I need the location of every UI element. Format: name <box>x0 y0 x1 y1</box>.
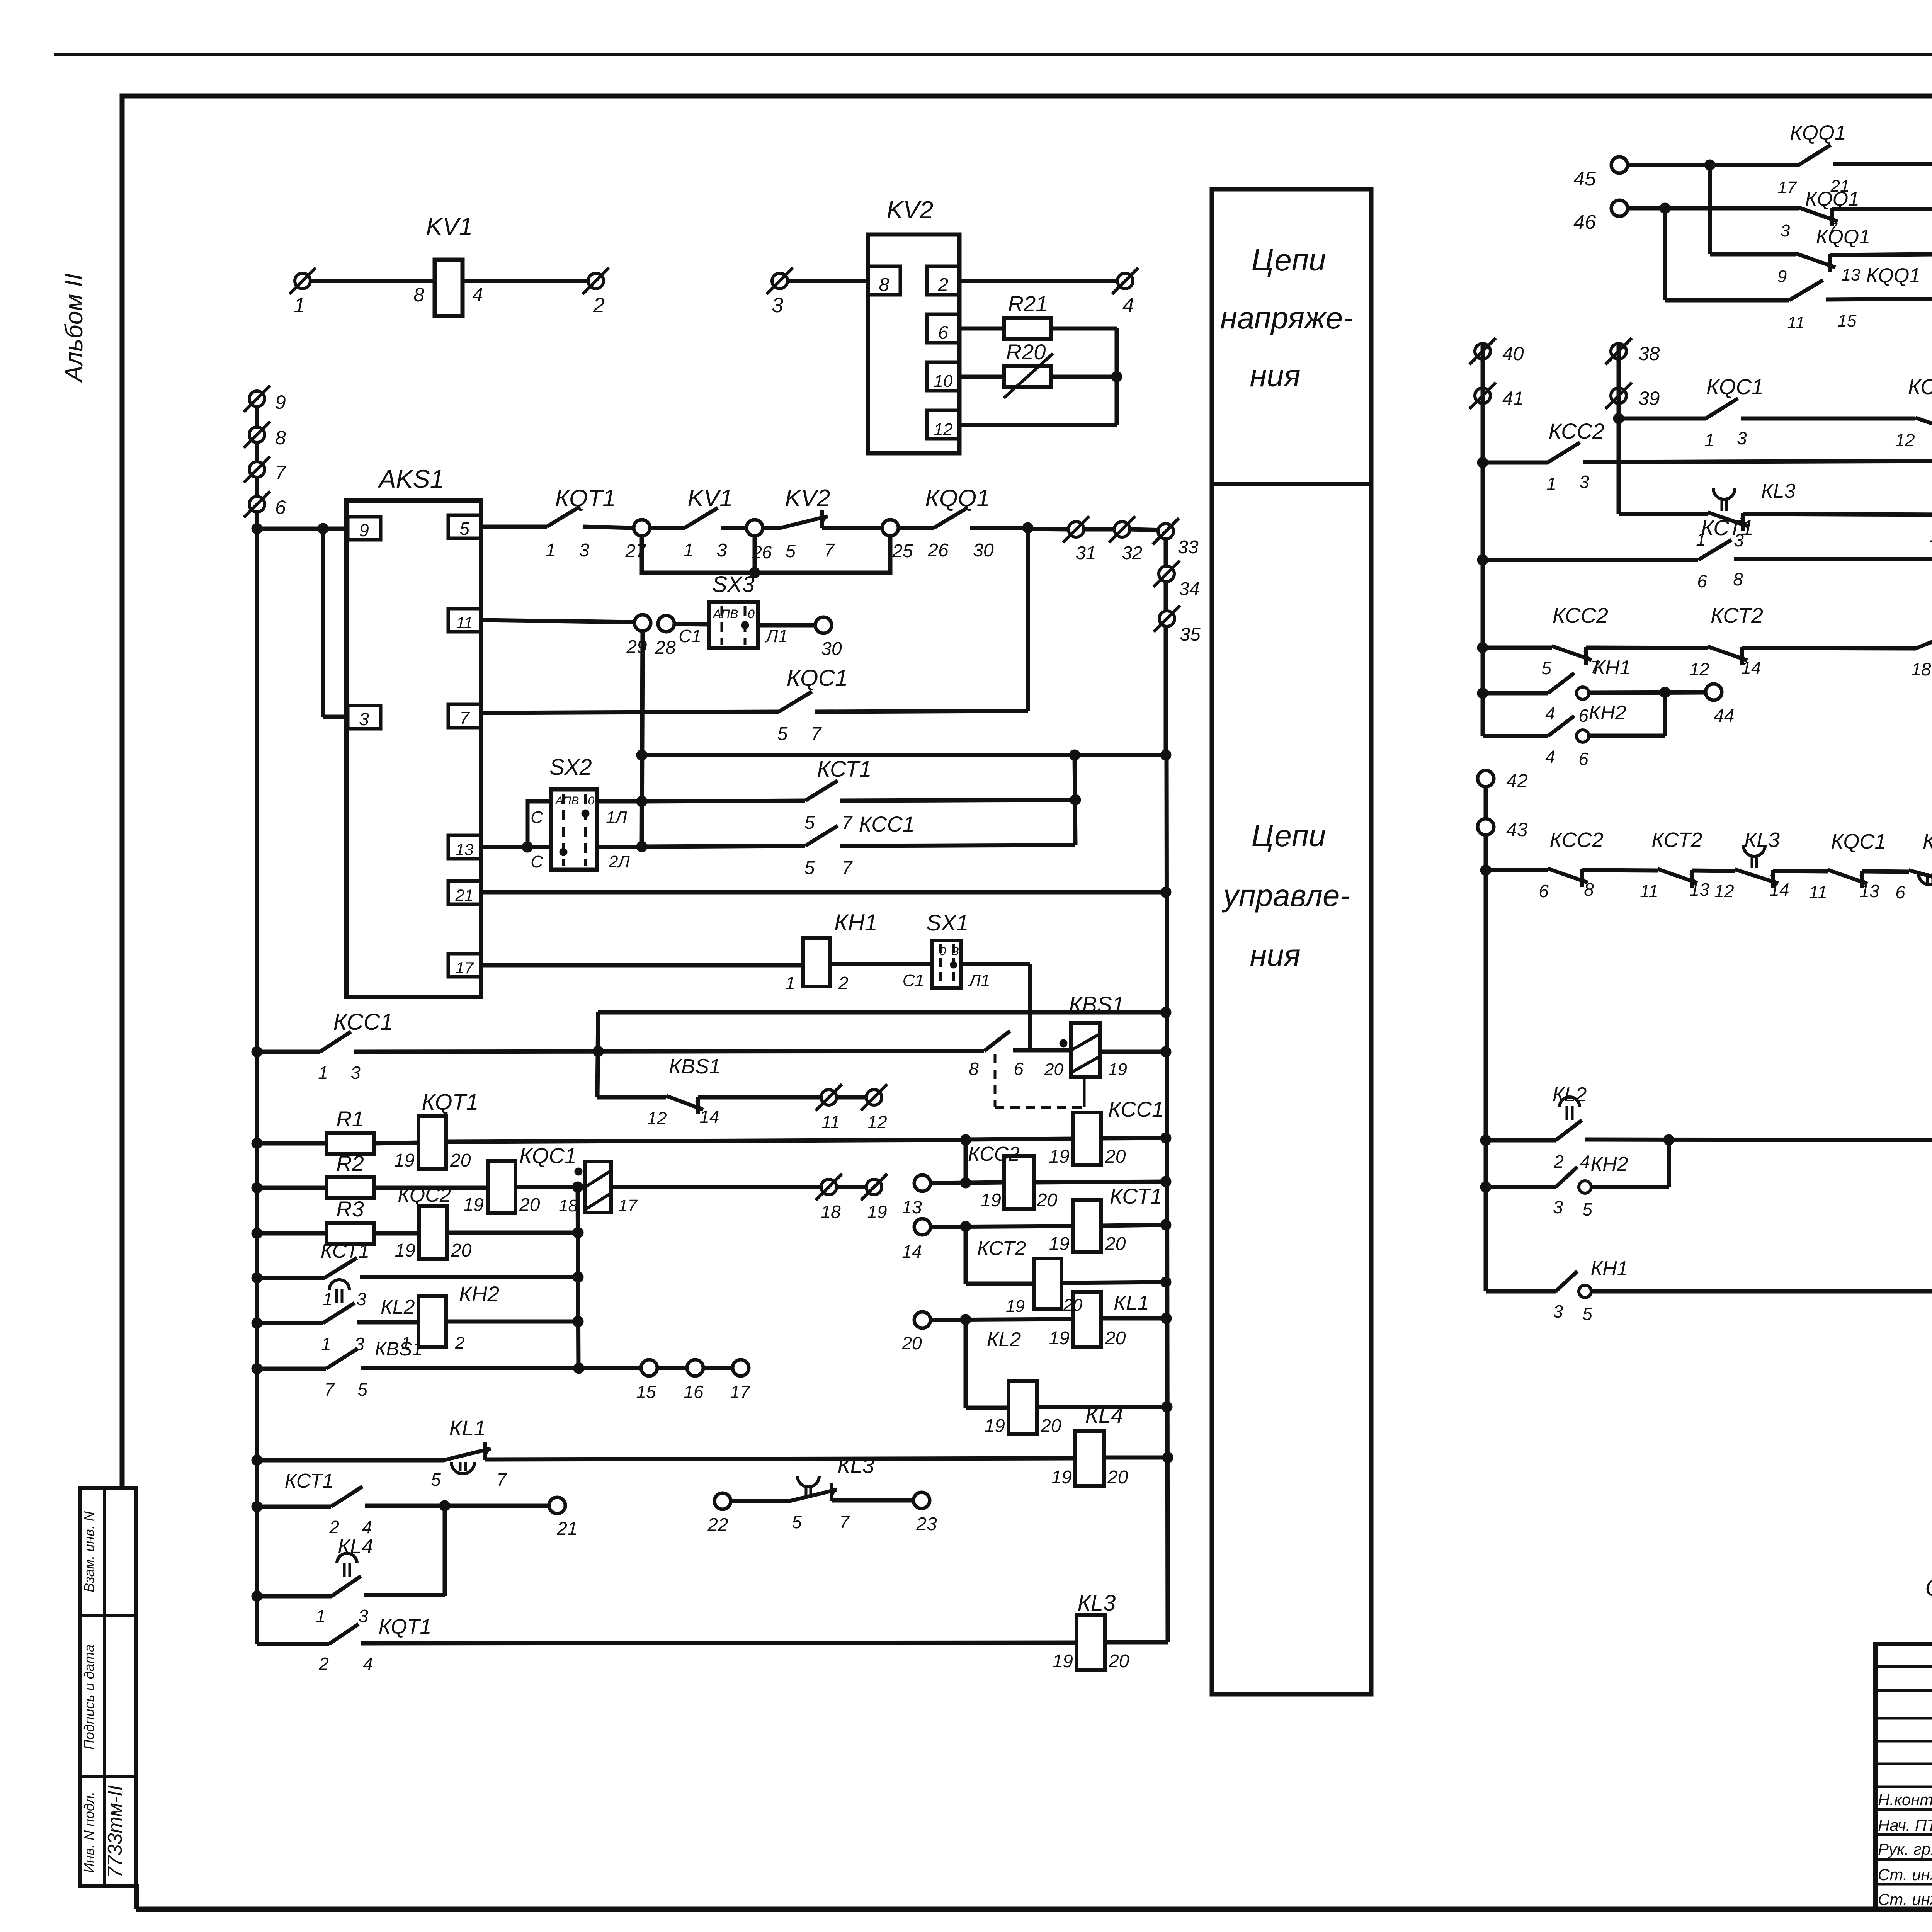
wire <box>1619 417 1706 421</box>
svg-text:9: 9 <box>275 391 286 413</box>
resistor R21 <box>959 327 1005 331</box>
svg-text:6: 6 <box>1895 882 1905 902</box>
svg-text:2: 2 <box>318 1654 329 1674</box>
svg-text:3: 3 <box>358 1606 368 1626</box>
svg-text:18: 18 <box>1911 659 1931 679</box>
svg-text:7: 7 <box>842 813 853 833</box>
contact KQQ1 17-21 <box>1799 145 1831 165</box>
svg-text:19: 19 <box>985 1416 1005 1436</box>
svg-text:3: 3 <box>1553 1197 1563 1217</box>
svg-text:15: 15 <box>636 1382 656 1402</box>
contact KQC1 5-7 <box>779 692 812 712</box>
contact KCT1 1-3 <box>325 1258 357 1278</box>
svg-text:4: 4 <box>472 284 483 306</box>
wire <box>257 1321 323 1325</box>
node 30 <box>815 617 832 633</box>
node 20 <box>914 1312 930 1328</box>
svg-text:20: 20 <box>450 1150 471 1171</box>
svg-text:17: 17 <box>730 1382 750 1402</box>
svg-text:R20: R20 <box>1006 340 1046 364</box>
svg-text:КQQ1: КQQ1 <box>1790 121 1846 145</box>
svg-text:SX3: SX3 <box>712 572 755 597</box>
svg-text:С: С <box>531 852 543 871</box>
wire <box>365 1504 549 1508</box>
svg-text:8: 8 <box>275 427 286 449</box>
wire row to node <box>642 753 1166 757</box>
svg-text:R21: R21 <box>1008 291 1048 316</box>
svg-text:КL2: КL2 <box>1553 1083 1587 1106</box>
svg-text:Цепи: Цепи <box>1252 818 1326 853</box>
svg-text:20: 20 <box>519 1195 540 1215</box>
wire <box>840 800 1075 801</box>
svg-text:6: 6 <box>1014 1059 1024 1079</box>
wire <box>447 1231 578 1235</box>
wire <box>822 526 883 530</box>
wire <box>257 1458 444 1463</box>
pin 10 <box>927 362 959 391</box>
svg-text:3: 3 <box>356 1289 366 1309</box>
wire <box>959 279 1117 283</box>
wire <box>966 1282 1036 1286</box>
relay coil KH2 <box>357 1320 419 1325</box>
svg-text:20: 20 <box>1105 1328 1126 1349</box>
wire <box>1104 1456 1168 1460</box>
svg-text:7: 7 <box>497 1469 507 1490</box>
sheet edge top <box>54 53 1932 56</box>
wire <box>1589 692 1706 693</box>
svg-text:20: 20 <box>1044 1060 1063 1079</box>
svg-text:6: 6 <box>275 497 286 518</box>
wire <box>970 526 1028 530</box>
svg-text:6: 6 <box>1578 749 1588 769</box>
wire <box>257 1594 332 1599</box>
svg-text:12: 12 <box>1714 881 1734 901</box>
wire <box>1773 871 1828 871</box>
relay coil KQC1 <box>488 1161 515 1213</box>
contact KH2 3-5 button <box>1556 1167 1577 1187</box>
svg-text:3: 3 <box>350 1063 361 1083</box>
wire <box>1101 1225 1166 1226</box>
svg-text:21: 21 <box>455 886 474 904</box>
svg-text:3: 3 <box>1737 428 1747 448</box>
svg-text:25: 25 <box>892 541 913 561</box>
wire <box>961 962 1030 966</box>
svg-text:КQQ1: КQQ1 <box>1805 188 1859 210</box>
wire <box>485 1458 1075 1459</box>
svg-text:3: 3 <box>1579 472 1589 492</box>
svg-text:23: 23 <box>916 1514 937 1534</box>
wire <box>1589 734 1665 738</box>
node 26 <box>747 520 763 536</box>
svg-text:Альбом II: Альбом II <box>60 273 88 383</box>
contact KCC1 1-3 <box>320 1032 351 1052</box>
svg-text:КL1: КL1 <box>1114 1291 1149 1315</box>
svg-text:КСС2: КСС2 <box>1549 419 1604 443</box>
svg-text:КН2: КН2 <box>1588 702 1626 724</box>
contact KQT1 2-4 <box>329 1624 359 1644</box>
node 42 <box>1478 770 1494 787</box>
title block left rows <box>1876 1665 1932 1668</box>
terminal 39 <box>1611 388 1626 403</box>
svg-text:44: 44 <box>1714 706 1734 726</box>
svg-text:1: 1 <box>1704 430 1714 450</box>
svg-text:КQQ1: КQQ1 <box>1816 226 1870 248</box>
svg-text:11: 11 <box>1640 881 1658 901</box>
svg-text:4: 4 <box>1545 703 1555 723</box>
wire <box>1619 512 1708 516</box>
wire <box>1833 163 1932 164</box>
contact KL2 2-4 latched <box>1556 1120 1582 1140</box>
svg-text:2: 2 <box>593 294 605 317</box>
svg-text:6: 6 <box>1539 881 1549 901</box>
relay coil KCC1 <box>966 1139 1074 1139</box>
svg-text:KV1: KV1 <box>687 485 733 512</box>
wire <box>463 279 588 283</box>
vertical bus x1495 <box>578 1187 578 1369</box>
svg-text:19: 19 <box>867 1202 887 1222</box>
terminal 11 <box>821 1090 837 1105</box>
svg-text:КQQ1: КQQ1 <box>925 485 990 512</box>
svg-text:38: 38 <box>1638 343 1660 364</box>
wire <box>1862 871 1909 872</box>
svg-text:КL2: КL2 <box>381 1296 415 1318</box>
svg-text:КL3: КL3 <box>1078 1590 1116 1616</box>
svg-text:КСС2: КСС2 <box>1549 828 1603 852</box>
wire <box>361 1643 1077 1643</box>
svg-text:3: 3 <box>1553 1301 1563 1321</box>
wire <box>1483 734 1548 738</box>
wire <box>930 1182 1004 1183</box>
resistor R2 <box>327 1177 374 1198</box>
svg-text:КСС2: КСС2 <box>1553 603 1608 628</box>
wire <box>815 711 1028 712</box>
wire <box>966 1406 1009 1410</box>
title block outer <box>1876 1644 1932 1909</box>
wire <box>674 624 709 624</box>
wire <box>257 1186 327 1190</box>
wire pin12 loop <box>959 423 1117 427</box>
contact KCT1 6-8 <box>1698 540 1731 560</box>
node 27 <box>634 520 650 536</box>
svg-text:5: 5 <box>777 724 788 744</box>
svg-text:КВS1: КВS1 <box>375 1338 423 1360</box>
relay KH1 <box>803 938 830 986</box>
svg-text:5: 5 <box>792 1512 802 1532</box>
svg-text:34: 34 <box>1179 579 1199 599</box>
wire <box>930 1226 1074 1227</box>
svg-text:11: 11 <box>1930 526 1932 546</box>
svg-text:17: 17 <box>456 959 474 977</box>
svg-text:Взам. инв. N: Взам. инв. N <box>81 1511 97 1592</box>
terminal 33 <box>1158 524 1173 539</box>
svg-text:Нач. ПТП: Нач. ПТП <box>1878 1816 1932 1834</box>
svg-text:20: 20 <box>1040 1416 1061 1436</box>
wire <box>1105 1640 1168 1645</box>
relay coil KCT2 <box>1034 1259 1061 1309</box>
svg-text:КСТ2: КСТ2 <box>977 1237 1026 1260</box>
svg-text:4: 4 <box>362 1517 372 1537</box>
wire <box>762 526 781 530</box>
bus 38-39 <box>1617 343 1621 514</box>
wire <box>257 1141 327 1146</box>
svg-text:7: 7 <box>842 858 853 878</box>
svg-text:Рук. гр.: Рук. гр. <box>1878 1840 1932 1858</box>
svg-text:19: 19 <box>1108 1060 1127 1079</box>
svg-text:Л1: Л1 <box>765 626 788 646</box>
wire <box>758 623 816 628</box>
svg-text:11: 11 <box>821 1112 840 1132</box>
pin 17 <box>448 954 481 977</box>
svg-text:КQТ1: КQТ1 <box>379 1615 432 1638</box>
svg-text:30: 30 <box>821 639 842 659</box>
wire pin21 row <box>481 890 1166 895</box>
wire <box>721 526 747 530</box>
svg-text:3: 3 <box>772 294 783 317</box>
relay KBS1 hatched 2 <box>575 1168 582 1175</box>
svg-text:12: 12 <box>647 1108 667 1128</box>
svg-text:40: 40 <box>1502 343 1524 364</box>
svg-text:7: 7 <box>824 540 835 561</box>
wire down <box>964 1226 968 1284</box>
wire <box>1483 461 1548 465</box>
svg-text:5: 5 <box>804 858 815 878</box>
resistor R3 <box>327 1223 374 1244</box>
bus wire <box>1484 787 1488 1291</box>
svg-text:6: 6 <box>938 323 949 343</box>
svg-text:20: 20 <box>1105 1146 1126 1167</box>
svg-text:Ст. инж.: Ст. инж. <box>1878 1866 1932 1884</box>
wire KH1 row <box>1486 1289 1556 1294</box>
resistor R20 <box>959 375 1005 379</box>
svg-text:15: 15 <box>1838 311 1857 330</box>
svg-text:КСТ2: КСТ2 <box>1711 603 1763 628</box>
contact KBS1 8-6 <box>984 1031 1010 1051</box>
svg-text:35: 35 <box>1180 624 1201 645</box>
svg-text:R2: R2 <box>336 1151 364 1175</box>
wire <box>698 1095 821 1100</box>
margin stamp box <box>80 1488 136 1886</box>
svg-text:КL3: КL3 <box>1744 828 1780 852</box>
svg-text:КСТ1: КСТ1 <box>817 757 871 782</box>
svg-text:19: 19 <box>1049 1234 1070 1254</box>
wire <box>1628 206 1799 211</box>
svg-text:19: 19 <box>1049 1328 1070 1349</box>
svg-text:19: 19 <box>394 1150 415 1171</box>
wire ladder v1 <box>1708 165 1712 254</box>
wire <box>1742 648 1916 648</box>
node 25 <box>882 520 898 536</box>
svg-text:14: 14 <box>1769 879 1789 900</box>
terminal 34 <box>1159 566 1174 582</box>
vertical <box>443 1506 447 1596</box>
svg-text:8: 8 <box>969 1059 979 1079</box>
pin 7 <box>448 704 481 728</box>
svg-text:5: 5 <box>431 1469 441 1490</box>
svg-text:20: 20 <box>1105 1234 1126 1254</box>
svg-text:12: 12 <box>867 1112 887 1132</box>
svg-text:4: 4 <box>1580 1151 1590 1172</box>
svg-text:КСТ1: КСТ1 <box>1110 1184 1162 1208</box>
svg-text:5: 5 <box>804 813 815 833</box>
svg-text:10: 10 <box>934 372 953 391</box>
svg-text:5: 5 <box>459 519 469 539</box>
vertical 2620-2840 <box>597 1012 598 1097</box>
wire to 31 32 33 <box>1028 529 1068 529</box>
contact KCC2 1-3 <box>1548 442 1580 463</box>
svg-text:1: 1 <box>323 1289 333 1309</box>
wire <box>481 525 547 529</box>
terminal 4 <box>1117 273 1133 289</box>
svg-text:АПВ: АПВ <box>554 794 579 807</box>
nodes 15 16 17 <box>641 1360 657 1376</box>
contact KV2 5-7 closed <box>820 510 824 528</box>
wire <box>1591 1185 1669 1189</box>
relay coil KL1 <box>1073 1292 1101 1347</box>
svg-text:3: 3 <box>359 709 369 729</box>
pin 3 <box>348 706 381 729</box>
svg-text:20: 20 <box>1036 1190 1058 1211</box>
svg-text:4: 4 <box>1545 747 1555 767</box>
svg-text:9: 9 <box>1777 267 1787 286</box>
column box Цепи напряжения / управления <box>1212 189 1371 1694</box>
svg-text:20: 20 <box>451 1240 472 1261</box>
contact KBS1 7-5 <box>326 1349 358 1369</box>
wire down <box>1028 964 1032 1052</box>
svg-text:4: 4 <box>363 1654 373 1674</box>
svg-text:КН2: КН2 <box>459 1282 500 1306</box>
svg-text:КQС1: КQС1 <box>519 1143 577 1168</box>
relay coil KQT1 <box>418 1116 446 1169</box>
svg-text:11: 11 <box>1809 882 1827 902</box>
svg-text:4: 4 <box>1122 294 1134 317</box>
wire <box>1832 207 1932 211</box>
wire <box>1483 558 1698 562</box>
pin 21 <box>448 881 481 904</box>
svg-text:13: 13 <box>902 1197 922 1217</box>
terminal 2 <box>588 273 604 289</box>
wire <box>1100 1050 1166 1054</box>
pin 8 <box>868 266 900 295</box>
svg-text:7: 7 <box>811 724 822 744</box>
wire <box>257 1367 326 1371</box>
relay coil KL3 <box>1077 1615 1105 1670</box>
svg-text:11: 11 <box>1787 313 1805 332</box>
svg-text:14: 14 <box>1741 658 1761 678</box>
wire <box>257 1505 331 1509</box>
node 13 <box>914 1175 930 1191</box>
wire to AKS1 pin3 <box>321 529 325 717</box>
svg-text:7: 7 <box>324 1379 335 1400</box>
svg-text:1: 1 <box>316 1606 326 1626</box>
wire <box>832 1498 914 1503</box>
wire <box>598 1010 1166 1015</box>
terminal 31 <box>1068 522 1084 537</box>
svg-text:33: 33 <box>1178 537 1199 558</box>
svg-text:20: 20 <box>1108 1651 1129 1672</box>
relay KV1 <box>435 260 463 316</box>
svg-text:КL4: КL4 <box>338 1535 373 1558</box>
terminal 32 <box>1114 522 1130 537</box>
svg-text:1: 1 <box>785 973 795 993</box>
contact KCC2 5-7 closed <box>1584 647 1588 665</box>
wire <box>360 1275 578 1279</box>
contact KCC2 6-8 closed <box>1580 869 1584 887</box>
svg-text:32: 32 <box>1122 543 1142 563</box>
wire <box>1830 253 1932 255</box>
node 21 <box>549 1497 565 1514</box>
svg-text:46: 46 <box>1573 211 1596 233</box>
contact KL2 1-3 latched <box>323 1303 355 1323</box>
wire <box>446 1320 578 1324</box>
contact KL4 1-3 latched <box>332 1576 361 1596</box>
wire KH2 row <box>1486 1185 1556 1189</box>
svg-text:КСС1: КСС1 <box>333 1009 393 1035</box>
wire 29 down to SX2 <box>642 631 643 847</box>
svg-text:19: 19 <box>981 1190 1001 1211</box>
wire ladder v2 <box>1663 208 1667 300</box>
SX2 right stubs <box>597 799 642 804</box>
contact KQQ1 9-13 closed <box>1710 252 1796 257</box>
svg-text:17: 17 <box>618 1196 638 1215</box>
terminal 3 <box>772 273 787 289</box>
svg-text:R3: R3 <box>336 1197 364 1221</box>
contact KH2 4-6 button <box>1548 716 1574 736</box>
svg-text:13: 13 <box>1689 879 1709 900</box>
svg-text:AKS1: AKS1 <box>378 464 444 493</box>
wire <box>731 1499 789 1503</box>
svg-text:КL1: КL1 <box>1923 830 1932 853</box>
svg-text:17: 17 <box>1778 178 1797 197</box>
wire <box>930 1319 1074 1320</box>
wire <box>361 1366 641 1370</box>
wire <box>1483 646 1552 650</box>
svg-text:2Л: 2Л <box>608 852 630 871</box>
svg-text:7733тм-II: 7733тм-II <box>104 1785 126 1878</box>
contact KCT1 2-4 <box>331 1486 362 1507</box>
contact KV1 1-3 <box>685 508 718 528</box>
svg-text:КВS1: КВS1 <box>1069 992 1124 1017</box>
svg-text:управле-: управле- <box>1221 878 1350 913</box>
svg-text:19: 19 <box>463 1195 484 1215</box>
wire <box>1826 299 1932 299</box>
wire <box>840 845 1075 846</box>
wire <box>257 1231 327 1236</box>
svg-text:КСС1: КСС1 <box>1108 1097 1164 1121</box>
wire <box>481 712 779 713</box>
svg-text:20: 20 <box>1107 1467 1128 1488</box>
svg-text:КСС1: КСС1 <box>859 812 915 836</box>
svg-text:Л1: Л1 <box>968 971 990 990</box>
contact KL3 12-14 anchor closed <box>1771 870 1775 888</box>
wire down <box>964 1320 968 1408</box>
svg-text:КВS1: КВS1 <box>669 1055 721 1078</box>
node 29 <box>634 615 651 631</box>
wire to AKS1 pin9 <box>257 527 348 531</box>
wire <box>1628 163 1799 167</box>
svg-text:6: 6 <box>1578 706 1588 726</box>
svg-text:КQТ1: КQТ1 <box>555 485 616 512</box>
wire <box>364 1593 445 1597</box>
svg-text:2: 2 <box>838 973 849 993</box>
svg-text:39: 39 <box>1638 388 1660 409</box>
wire <box>446 1140 966 1142</box>
svg-text:5: 5 <box>357 1379 367 1400</box>
svg-text:13: 13 <box>456 840 474 859</box>
node 28 <box>658 616 674 632</box>
wire <box>597 1095 666 1100</box>
svg-text:С1: С1 <box>903 971 924 990</box>
relay KV2 <box>868 235 959 453</box>
